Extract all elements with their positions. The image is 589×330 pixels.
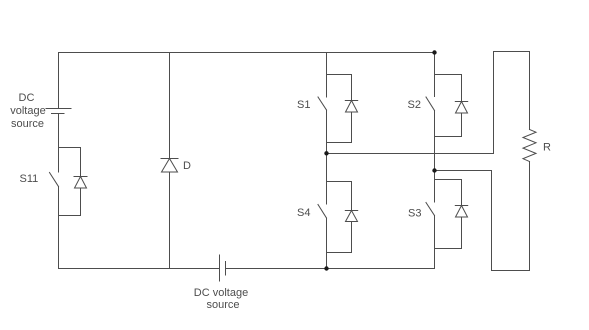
wire S4 parallel branch top bbox=[327, 181, 352, 183]
wire left leg middle (S1 branch to S4 branch) bbox=[326, 143, 328, 182]
wire middle branch top (rail to diode D) bbox=[169, 53, 171, 159]
wire right leg middle (S2 branch to S3 branch) bbox=[434, 137, 436, 180]
switch S2 bbox=[426, 75, 435, 137]
wire right leg bottom (S3 branch to bottom rail) bbox=[434, 249, 436, 269]
label S1 bbox=[297, 99, 310, 111]
switch S11 bbox=[50, 148, 59, 216]
wire S11 parallel branch top bbox=[59, 147, 81, 149]
label V1 "DC voltage source" bbox=[10, 92, 45, 130]
label S11 bbox=[20, 173, 39, 185]
wire node A to load (crosses right leg, no connection) bbox=[327, 153, 494, 155]
svg-text:voltage: voltage bbox=[10, 105, 45, 117]
wire S3 parallel branch top bbox=[435, 179, 462, 181]
wire top rail bbox=[59, 52, 435, 54]
junction dot at bottom of left bridge leg bbox=[324, 266, 328, 270]
svg-text:source: source bbox=[206, 299, 239, 311]
wire bottom rail left of battery V2 bbox=[59, 268, 220, 270]
svg-text:S3: S3 bbox=[408, 208, 421, 220]
label S3 bbox=[408, 208, 421, 220]
svg-text:S11: S11 bbox=[20, 173, 39, 185]
svg-text:S1: S1 bbox=[297, 99, 310, 111]
wire left vertical from top rail down to battery V1 bbox=[58, 53, 60, 109]
wire S11 parallel branch bottom bbox=[59, 215, 81, 217]
wire S1 parallel branch bottom bbox=[327, 142, 352, 144]
wire from battery V1 down to S11 branch bbox=[58, 114, 60, 148]
svg-text:S2: S2 bbox=[408, 99, 421, 111]
node B junction dot (right leg midpoint) bbox=[432, 168, 436, 172]
node A junction dot (left leg midpoint) bbox=[324, 151, 328, 155]
label S2 bbox=[408, 99, 421, 111]
wire S1 parallel branch top bbox=[327, 74, 352, 76]
diode D4 (anti-parallel with S4) bbox=[345, 182, 357, 253]
diode D1 (anti-parallel with S1) bbox=[345, 75, 357, 143]
wire S3 parallel branch bottom bbox=[435, 248, 462, 250]
wire right bridge leg top (dot to S2 branch) bbox=[434, 53, 436, 75]
label D bbox=[183, 160, 191, 172]
wire S4 parallel branch bottom bbox=[327, 252, 352, 254]
battery V1 (DC voltage source, left) bbox=[46, 109, 71, 114]
svg-text:R: R bbox=[543, 142, 551, 154]
wire S2 parallel branch top bbox=[435, 74, 462, 76]
diode D3 (anti-parallel with S3) bbox=[455, 180, 467, 249]
wire bottom rail right of battery V2 bbox=[226, 268, 435, 270]
diode D11 (anti-parallel with S11) bbox=[74, 148, 87, 216]
junction dot at top of right bridge leg bbox=[432, 50, 436, 54]
diode D bbox=[161, 159, 178, 173]
wire load loop bottom (resistor bottom down and back to node B wire) bbox=[492, 162, 530, 271]
wire S2 parallel branch bottom bbox=[435, 136, 462, 138]
svg-text:source: source bbox=[11, 118, 44, 130]
svg-text:S4: S4 bbox=[297, 207, 310, 219]
wire node B to load bbox=[435, 170, 492, 172]
wire load loop top (node A wire up and over to resistor top) bbox=[494, 52, 530, 154]
label V2 "DC voltage source" bbox=[194, 287, 248, 311]
wire from S11 branch down to bottom rail bbox=[58, 216, 60, 269]
svg-text:D: D bbox=[183, 160, 191, 172]
battery V2 (DC voltage source, bottom) bbox=[220, 255, 226, 281]
diode D2 (anti-parallel with S2) bbox=[455, 75, 467, 137]
label R bbox=[543, 142, 551, 154]
label S4 bbox=[297, 207, 310, 219]
svg-text:DC: DC bbox=[19, 92, 35, 104]
svg-text:DC voltage: DC voltage bbox=[194, 287, 248, 299]
switch S4 bbox=[318, 182, 327, 253]
wire middle branch bottom (diode D to bottom rail) bbox=[169, 172, 171, 269]
wire left leg bottom (S4 branch to bottom rail) bbox=[326, 253, 328, 269]
switch S3 bbox=[426, 180, 435, 249]
resistor R bbox=[523, 130, 536, 162]
wire left bridge leg top (rail to S1 branch) bbox=[326, 53, 328, 75]
switch S1 bbox=[318, 75, 327, 143]
